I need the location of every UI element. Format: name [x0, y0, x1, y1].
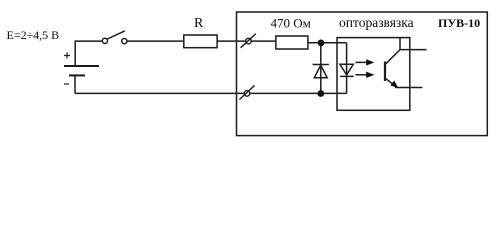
svg-text:опторазвязка: опторазвязка [339, 15, 414, 30]
svg-text:ПУВ-10: ПУВ-10 [438, 16, 480, 30]
svg-text:470 Ом: 470 Ом [271, 16, 311, 31]
svg-text:R: R [194, 16, 204, 31]
svg-text:Е=2÷4,5 В: Е=2÷4,5 В [7, 28, 60, 42]
